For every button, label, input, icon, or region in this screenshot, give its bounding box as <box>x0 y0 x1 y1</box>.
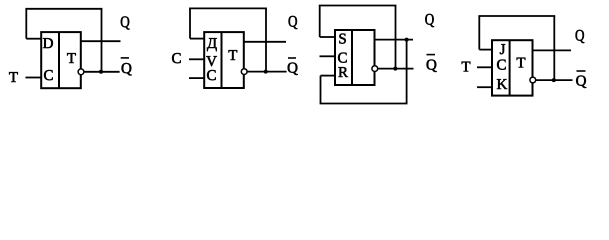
U3 junction dot on Q <box>405 38 409 42</box>
wire U2 Qbar output <box>247 71 286 73</box>
svg-text:Q: Q <box>426 58 437 74</box>
svg-text:Q: Q <box>287 61 298 77</box>
wire U3 S input stub <box>320 36 335 38</box>
svg-text:Q: Q <box>425 11 435 28</box>
U1 junction dot on Qbar <box>99 70 103 74</box>
U1 inversion bubble <box>78 69 84 75</box>
flip-flop U3 box (RS trigger cross-coupled) <box>335 30 375 85</box>
svg-text:R: R <box>338 65 348 81</box>
U4 junction dot on Qbar <box>552 78 556 82</box>
svg-text:T: T <box>9 70 18 86</box>
U4 Qbar overbar <box>577 70 586 72</box>
wire U2 feedback right vertical <box>265 8 267 71</box>
wire U2 feedback left vertical <box>189 8 191 38</box>
flip-flop U1 box (D trigger as T) <box>41 32 81 88</box>
wire U4 feedback top horizontal <box>478 15 555 17</box>
U2 Qbar overbar <box>288 57 296 59</box>
U3 inversion bubble <box>372 66 378 72</box>
U3 Qbar overbar <box>427 54 436 56</box>
U1 Qbar overbar <box>121 57 129 59</box>
U2 divider <box>221 32 223 88</box>
U2 junction dot on Qbar <box>264 70 268 74</box>
wire U1 Qbar output <box>84 71 120 73</box>
svg-text:C: C <box>171 51 181 67</box>
svg-text:Q: Q <box>575 28 585 45</box>
wire U4 feedback right vertical <box>553 16 555 80</box>
svg-text:T: T <box>516 56 525 72</box>
svg-text:Q: Q <box>121 61 132 77</box>
svg-text:C: C <box>43 68 53 84</box>
svg-text:С: С <box>206 68 216 84</box>
wire U2 Q output <box>244 41 286 43</box>
U1 divider <box>58 32 60 88</box>
wire U3 R input stub <box>321 75 336 77</box>
svg-text:S: S <box>338 31 346 47</box>
svg-text:D: D <box>43 36 54 52</box>
wire T input to C pin of U1 <box>26 77 42 79</box>
svg-text:K: K <box>496 77 507 93</box>
wire U4 feedback left vertical <box>478 16 480 50</box>
flip-flop U4 box (JK trigger as T) <box>492 40 533 95</box>
wire U1 Q output <box>81 40 121 42</box>
wire U1 feedback top horizontal <box>25 8 102 10</box>
svg-text:Д: Д <box>207 36 217 52</box>
svg-text:T: T <box>228 48 237 64</box>
flip-flop U2 box (D+V trigger as T) <box>204 32 244 88</box>
wire U1 D input stub <box>26 38 41 40</box>
wire U4 Qbar output <box>536 79 573 81</box>
wire U3 feedback bottom horizontal <box>320 103 408 105</box>
wire U3 feedback top horizontal <box>319 5 397 7</box>
svg-text:T: T <box>67 51 76 67</box>
wire U2 feedback top horizontal <box>189 7 267 9</box>
U2 inversion bubble <box>241 69 247 75</box>
wire U1 feedback right vertical <box>101 9 103 72</box>
svg-text:T: T <box>461 59 470 75</box>
wire U4 Q output <box>533 49 572 51</box>
U3 divider <box>351 30 353 85</box>
wire T input to C pin of U4 <box>477 66 492 68</box>
wire U1 feedback left vertical <box>25 9 27 39</box>
wire U3 feedback top-left vertical <box>319 6 321 38</box>
svg-text:Q: Q <box>288 14 298 31</box>
svg-text:C: C <box>496 58 506 74</box>
wire U4 K pin stub <box>477 86 492 88</box>
wire U2 D input stub <box>190 38 204 40</box>
wire U2 C pin stub <box>189 77 204 79</box>
svg-text:Q: Q <box>576 74 587 90</box>
wire U3 Qbar output <box>378 68 414 70</box>
U3 junction dot on Qbar <box>393 67 397 71</box>
wire U3 Q output <box>375 39 414 41</box>
wire U4 J input stub <box>479 49 492 51</box>
svg-text:J: J <box>500 42 506 58</box>
U4 inversion bubble <box>530 77 536 83</box>
wire U3 feedback bottom-right vertical <box>406 40 408 104</box>
wire U3 feedback bottom-left vertical <box>320 76 322 104</box>
svg-text:Q: Q <box>120 14 130 31</box>
wire U3 feedback top-right vertical <box>395 6 397 69</box>
U4 divider <box>509 40 511 95</box>
wire C input to V pin of U2 <box>189 58 204 60</box>
wire U3 C pin stub <box>320 55 336 57</box>
